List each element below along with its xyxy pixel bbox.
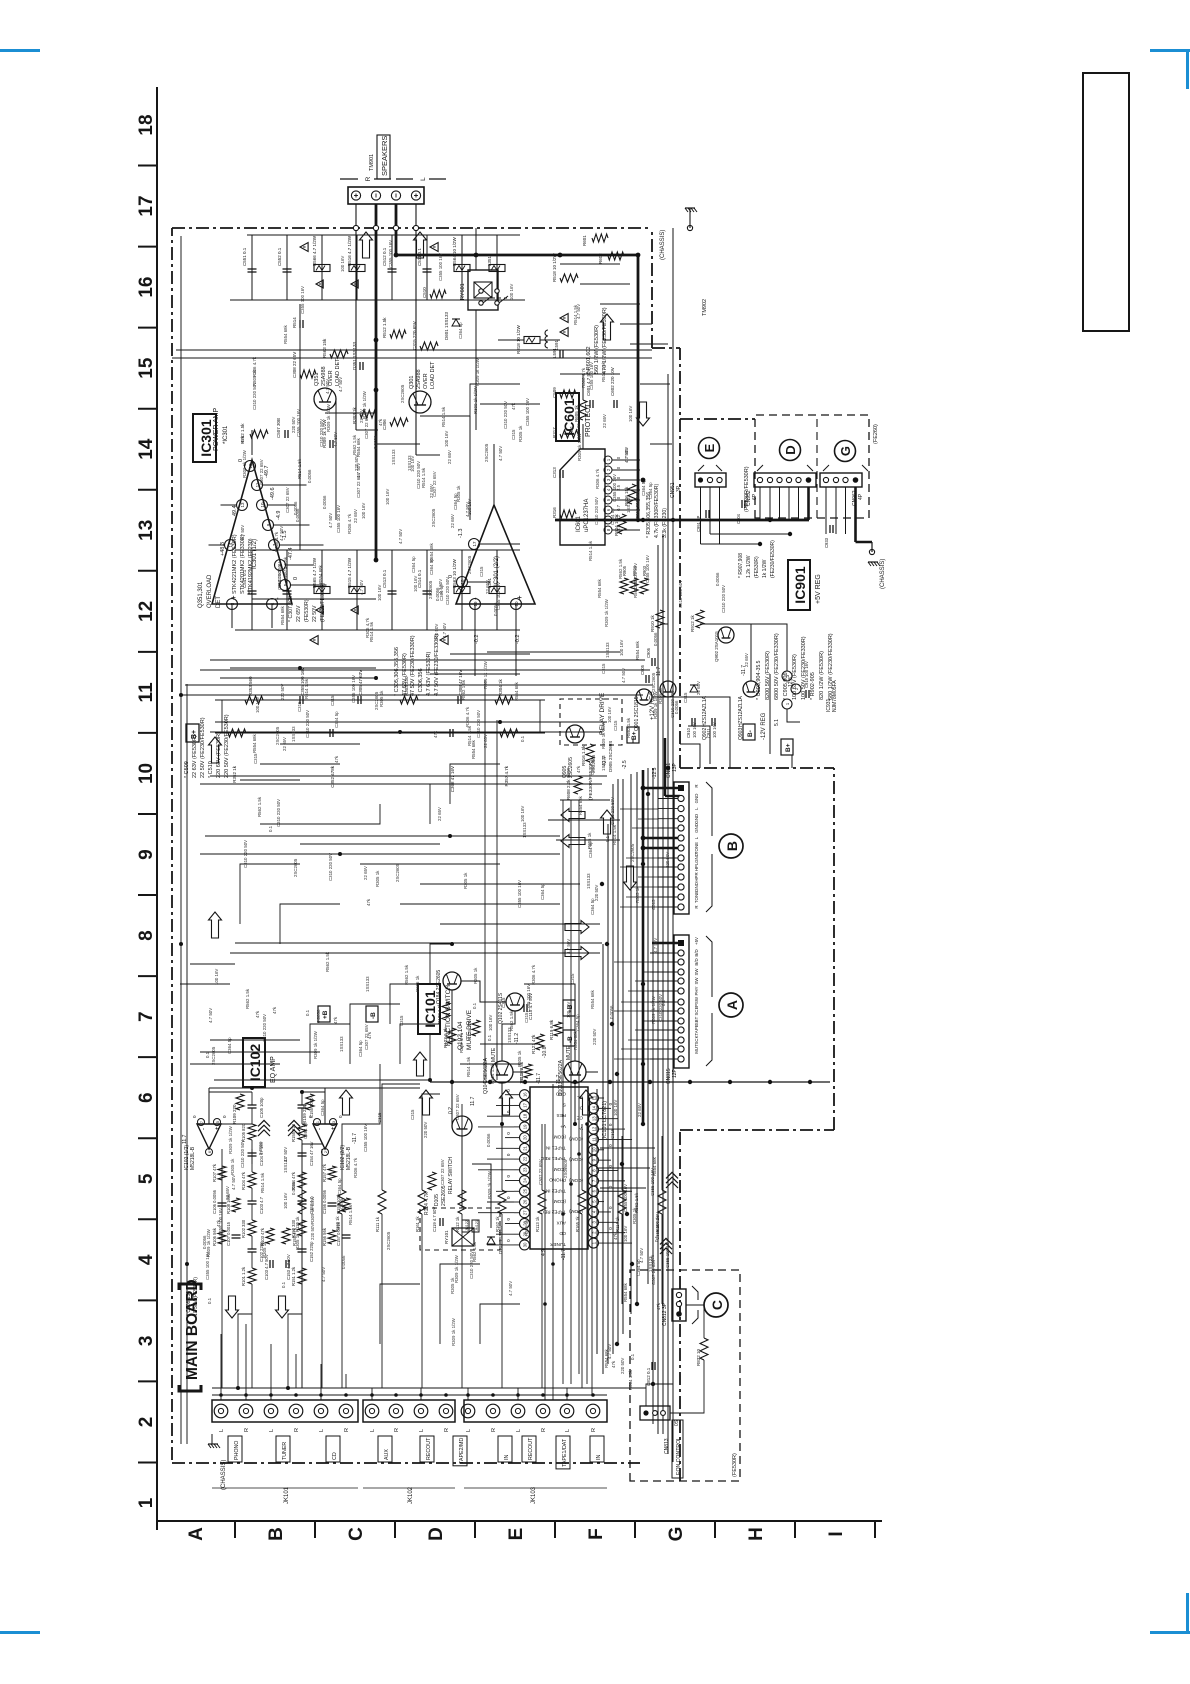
output filter rung R516 (356, 235, 358, 300)
CN815 pin 9 (678, 1018, 684, 1024)
CN811 pin 3 (678, 805, 684, 811)
svg-text:2SC2605: 2SC2605 (630, 843, 635, 862)
svg-text:C364 5p: C364 5p (320, 1099, 325, 1116)
wire (650, 443, 672, 445)
svg-text:4: 4 (136, 1254, 157, 1265)
power label -B box (366, 1006, 378, 1022)
svg-text:0.1: 0.1 (605, 835, 610, 842)
ruler tick (138, 246, 157, 248)
svg-text:100 16V: 100 16V (410, 456, 415, 472)
wire (541, 1124, 543, 1164)
svg-text:17: 17 (472, 541, 477, 547)
resistor R832 (700, 1338, 708, 1360)
bus wire y658 (657, 545, 659, 1434)
wire (200, 853, 560, 855)
svg-text:TUNER: TUNER (549, 1242, 566, 1247)
long link y485 (484, 680, 486, 1080)
wire (430, 673, 520, 675)
svg-text:4.7 50V: 4.7 50V (325, 379, 330, 394)
svg-text:0.1: 0.1 (630, 1353, 635, 1360)
connector CN962 4P (820, 473, 862, 487)
svg-text:R109 220: R109 220 (232, 1104, 237, 1124)
ruler tick (138, 813, 157, 815)
svg-text:6: 6 (208, 1151, 212, 1153)
signal arrow up 1 (561, 835, 585, 848)
svg-text:4.7 50V: 4.7 50V (498, 446, 503, 461)
svg-text:20: 20 (523, 1135, 528, 1140)
wire (382, 1084, 420, 1164)
ruler tick (138, 489, 157, 491)
svg-text:R305 1k: R305 1k (635, 886, 640, 903)
svg-text:R554 68k: R554 68k (623, 1282, 628, 1302)
svg-text:47 50V (FE230/FE330R): 47 50V (FE230/FE330R) (410, 635, 416, 696)
svg-text:C355 100 16V: C355 100 16V (525, 398, 530, 426)
connector CN812 3P (672, 1289, 686, 1321)
svg-text:2SC2605: 2SC2605 (467, 555, 472, 574)
resistor R125 (472, 1020, 480, 1036)
svg-text:R316: R316 (552, 507, 557, 518)
svg-text:6800 50V (FE230/FE330R): 6800 50V (FE230/FE330R) (774, 633, 780, 700)
svg-text:C315: C315 (601, 663, 606, 674)
transistor Q901 (636, 689, 652, 705)
svg-text:L: L (269, 1429, 275, 1432)
long rail x1014 (200, 669, 650, 671)
wire speaker L+ (415, 204, 417, 455)
bracket B (706, 854, 712, 912)
left ruler line (157, 1520, 882, 1522)
svg-text:2SE2605: 2SE2605 (441, 1185, 447, 1206)
svg-text:C315 220 65V: C315 220 65V (412, 321, 417, 350)
IC601 label box (556, 393, 579, 441)
IC101 top pin feeders (505, 1094, 514, 1096)
svg-text:820 1/2W (FE530R): 820 1/2W (FE530R) (819, 651, 825, 700)
svg-text:C364 5p: C364 5p (610, 508, 615, 525)
connector D ring (780, 440, 801, 461)
svg-text:2SC2605: 2SC2605 (428, 580, 433, 599)
svg-text:R608 2.2k 1/2W: R608 2.2k 1/2W (566, 767, 571, 800)
svg-text:6: 6 (136, 1092, 157, 1103)
svg-text:R306 4.7k: R306 4.7k (365, 617, 370, 638)
svg-text:0.0056: 0.0056 (293, 501, 298, 515)
svg-text:49.4: 49.4 (232, 505, 238, 516)
svg-text:R602: R602 (598, 253, 603, 264)
svg-text:C103 4.7: C103 4.7 (259, 1196, 264, 1214)
chain components rail B (228, 729, 246, 737)
svg-text:C355 100 16V: C355 100 16V (388, 240, 393, 268)
svg-text:SPEAKERS: SPEAKERS (380, 136, 389, 176)
svg-text:100 16V: 100 16V (607, 707, 612, 723)
svg-text:C310 220 50V: C310 220 50V (670, 690, 675, 718)
svg-text:A: A (724, 1000, 740, 1010)
svg-text:C315: C315 (651, 899, 656, 910)
svg-text:-: - (317, 1128, 323, 1130)
svg-text:0: 0 (616, 456, 621, 459)
ruler tick (138, 651, 157, 653)
svg-text:C355 100 16V: C355 100 16V (300, 286, 305, 314)
input label RECOUT (522, 1436, 536, 1462)
input label RECOUT (420, 1436, 434, 1462)
input jack L at y518 (511, 1404, 525, 1418)
IC101 pin 11 (589, 1134, 599, 1144)
svg-text:2SC2605: 2SC2605 (484, 443, 489, 462)
transistor Q301 overload det (409, 391, 431, 413)
filter ladder rail 3 (235, 629, 520, 631)
transistor Q904 (718, 627, 734, 643)
svg-text:R112 1k: R112 1k (455, 1216, 460, 1232)
svg-text:TAPE: TAPE (694, 1024, 699, 1035)
svg-text:22 65V: 22 65V (359, 409, 364, 423)
svg-text:22 65V: 22 65V (637, 1103, 642, 1117)
component C155 (298, 1107, 307, 1109)
svg-text:C308 22 65V: C308 22 65V (292, 352, 297, 378)
power supply label B+ (186, 724, 199, 742)
CN811 pin 7 (678, 845, 684, 851)
svg-text:0: 0 (506, 1196, 511, 1199)
diode D101 (487, 1237, 495, 1244)
svg-text:2SE5622A: 2SE5622A (483, 1057, 489, 1082)
svg-text:C310 220 50V: C310 220 50V (277, 562, 282, 590)
svg-text:C315: C315 (570, 973, 575, 984)
resistor R604 (618, 514, 626, 534)
wire (586, 1124, 588, 1384)
ruler tick (138, 327, 157, 329)
svg-text:0: 0 (506, 1239, 511, 1242)
filter rung R515 (356, 550, 358, 630)
IC101 pin 22 TAPE1 REC (520, 1154, 530, 1164)
svg-text:R309 1k 1/2W: R309 1k 1/2W (487, 1170, 492, 1199)
svg-text:220 50V: 220 50V (592, 1029, 597, 1045)
resistor R121 (536, 1034, 544, 1050)
top ruler line (156, 87, 158, 1530)
svg-text:0: 0 (608, 1165, 613, 1168)
IC101 pin 16 GND (520, 1090, 530, 1100)
svg-text:100 50V (FE230/FE330R): 100 50V (FE230/FE330R) (801, 636, 807, 700)
svg-text:R309 1k 1/2W: R309 1k 1/2W (473, 385, 478, 414)
svg-text:IN: IN (596, 1455, 602, 1460)
signal arrow bus right (601, 810, 614, 834)
svg-text:C364 5p: C364 5p (334, 711, 339, 728)
resistor R606 (628, 484, 636, 504)
CN815 pin 3 (678, 959, 684, 965)
ruler tick (138, 408, 157, 410)
component C152 (298, 1251, 307, 1253)
input jack L at y567 (560, 1404, 574, 1418)
input jack L at y421 (414, 1404, 428, 1418)
boxed resistor R318 (524, 337, 540, 344)
input jack R at y593 (586, 1404, 600, 1418)
svg-text:5: 5 (216, 1121, 220, 1123)
feed wires CN811 (658, 798, 678, 800)
IC101 pin 28 AUX (520, 1218, 530, 1228)
capacitor C103 (269, 1260, 271, 1268)
IC301 pin 5 (280, 580, 291, 591)
svg-text:0.0056: 0.0056 (653, 632, 658, 646)
wire (400, 1024, 440, 1064)
svg-text:GND: GND (694, 814, 699, 824)
main board border connector bay (680, 767, 834, 769)
svg-text:1SS133: 1SS133 (601, 755, 606, 771)
input label CD (326, 1436, 340, 1462)
svg-text:C310 220 50V: C310 220 50V (262, 1014, 267, 1042)
svg-text:(FE230/FE330R): (FE230/FE330R) (320, 583, 326, 622)
transistor Q101 mute (564, 1061, 586, 1083)
svg-text:1SS133: 1SS133 (391, 449, 396, 465)
resistor R112 (461, 1214, 463, 1388)
component R155 (298, 1124, 306, 1140)
svg-text:R: R (694, 784, 699, 787)
svg-text:C315: C315 (524, 1012, 529, 1023)
svg-text:R305 1k: R305 1k (262, 1241, 267, 1258)
svg-text:Q301: Q301 (409, 376, 415, 389)
svg-text:0: 0 (506, 1175, 511, 1178)
svg-text:L: L (420, 177, 427, 181)
relay contact R (495, 301, 499, 305)
svg-text:-11.7: -11.7 (352, 1133, 358, 1144)
CN815 pin 11 (678, 1037, 684, 1043)
IC101 pin 17 S (520, 1100, 530, 1110)
svg-text:R514 1.5k: R514 1.5k (421, 467, 426, 488)
capacitor C911 (711, 718, 713, 726)
IC901 label box (788, 560, 810, 610)
svg-text:C507 30B: C507 30B (276, 418, 281, 438)
svg-text:C315: C315 (253, 753, 258, 764)
svg-text:C307 22 65V: C307 22 65V (364, 1024, 369, 1050)
svg-text:R: R (344, 1428, 350, 1432)
svg-text:D: D (426, 1527, 447, 1541)
svg-text:C307 22 65V: C307 22 65V (432, 471, 437, 497)
bracket D (757, 465, 763, 471)
ruler tick (138, 165, 157, 167)
svg-text:100 16V: 100 16V (712, 722, 717, 738)
IC101 pin 25 TAPE2 IN (520, 1186, 530, 1196)
power label +B box (318, 1006, 330, 1022)
svg-text:SW: SW (694, 968, 699, 976)
second up arrow speakers (414, 232, 427, 258)
border stub to connector D/G box (680, 418, 755, 420)
svg-text:4.7 50V: 4.7 50V (621, 668, 626, 683)
svg-text:CE: CE (577, 1116, 583, 1121)
component C102 (248, 1251, 257, 1253)
svg-text:R119 6.8k: R119 6.8k (549, 1019, 554, 1040)
component R152 (298, 1220, 306, 1236)
svg-text:R512 1.5k: R512 1.5k (382, 317, 387, 338)
svg-text:100 16V: 100 16V (377, 585, 382, 601)
component R154 (298, 1172, 306, 1188)
wire (480, 403, 540, 405)
jack signal bus (212, 1387, 593, 1389)
svg-text:C310 220 50V: C310 220 50V (635, 491, 640, 519)
svg-text:C119 4.7 50V: C119 4.7 50V (432, 1206, 437, 1232)
mute wires (513, 1071, 524, 1073)
svg-text:220 50V: 220 50V (310, 1224, 315, 1240)
svg-text:11.7: 11.7 (470, 1096, 476, 1106)
mute bus dots (450, 1080, 454, 1084)
svg-text:(FE530R): (FE530R) (754, 556, 760, 578)
CN815 pin 12 (678, 1046, 684, 1052)
junction dots rails (179, 693, 183, 697)
wire (630, 343, 668, 345)
svg-text:JN122: JN122 (465, 1220, 469, 1231)
svg-text:R: R (541, 1428, 547, 1432)
filter ladder rail 4 (235, 549, 520, 551)
wire (180, 983, 230, 985)
svg-text:22 65V: 22 65V (225, 1186, 230, 1200)
svg-text:2SC2605: 2SC2605 (386, 1231, 391, 1250)
ruler tick (474, 1521, 476, 1538)
svg-text:22 65V: 22 65V (696, 681, 701, 695)
main board border bottom (679, 348, 681, 768)
svg-text:R306 4.7k: R306 4.7k (347, 513, 352, 534)
svg-text:100 16V: 100 16V (488, 1015, 493, 1031)
svg-text:R601: R601 (582, 235, 587, 246)
resistor R113 (541, 1214, 543, 1388)
svg-text:R554 68k: R554 68k (429, 542, 434, 562)
svg-text:1SS133: 1SS133 (507, 1027, 512, 1043)
wire (215, 721, 607, 723)
svg-text:17: 17 (523, 1102, 528, 1107)
svg-text:R352 1k: R352 1k (232, 765, 237, 783)
IC301 label box (193, 414, 216, 462)
svg-text:R562 1.5k: R562 1.5k (633, 577, 638, 598)
bus wire y618 (617, 779, 619, 1344)
svg-text:R514 1.5k: R514 1.5k (304, 678, 309, 699)
ruler tick (138, 1218, 157, 1220)
svg-text:C364 5p: C364 5p (588, 841, 593, 858)
svg-text:R912 1k: R912 1k (690, 614, 695, 632)
junction dots scatter (500, 1122, 504, 1126)
bus wire y603 (602, 944, 604, 1374)
svg-text:IC601: IC601 (576, 515, 582, 532)
svg-text:C364 5p: C364 5p (575, 1014, 580, 1031)
svg-text:4.7 50V: 4.7 50V (338, 377, 343, 392)
signal arrow eq (226, 1296, 239, 1318)
speaker terminal 1 (351, 191, 360, 200)
IC301 pin 10 (257, 500, 268, 511)
main board border top (171, 228, 173, 1460)
svg-text:R: R (591, 1428, 597, 1432)
svg-text:C310 220 50V: C310 220 50V (252, 382, 257, 410)
transistor Q102 (506, 993, 524, 1011)
IC101 pin 2 (589, 1228, 599, 1238)
jack feed wires (220, 1388, 222, 1400)
capacitor C904 (741, 500, 743, 508)
eq wires (221, 1149, 223, 1388)
component C103 (248, 1203, 257, 1205)
relay RY101 (452, 1228, 474, 1246)
transistor Q104 mute (491, 1061, 513, 1083)
svg-text:EQ AMP: EQ AMP (270, 1056, 277, 1083)
svg-text:OVER: OVER (423, 373, 429, 389)
svg-text:C355 100 16V: C355 100 16V (218, 1208, 223, 1236)
power label B+ box 2 (781, 739, 793, 755)
svg-text:2SC2605: 2SC2605 (211, 1046, 216, 1065)
svg-text:-49.6: -49.6 (270, 487, 276, 500)
svg-text:R562 1.5k: R562 1.5k (352, 434, 357, 455)
wire (356, 429, 378, 431)
svg-text:0: 0 (506, 1153, 511, 1156)
svg-text:L: L (419, 1429, 425, 1432)
svg-text:-2.5: -2.5 (622, 760, 628, 769)
svg-text:0: 0 (616, 466, 621, 469)
bold feed wire (664, 738, 666, 796)
svg-text:0.1: 0.1 (661, 999, 666, 1006)
svg-text:C310 220 50V: C310 220 50V (305, 710, 310, 738)
svg-text:C310 220 50V: C310 220 50V (469, 1251, 474, 1279)
crop mark top-left (0, 49, 40, 52)
svg-text:R305 1k: R305 1k (379, 690, 384, 707)
mute bus line (430, 1081, 830, 1083)
svg-text:CD: CD (559, 1231, 566, 1236)
svg-text:0.1: 0.1 (472, 1002, 477, 1009)
wire (240, 779, 300, 781)
svg-text:R: R (444, 1428, 450, 1432)
transistor Q351 overload det (314, 388, 336, 410)
svg-text:100 16V: 100 16V (340, 256, 345, 272)
resistor R912 (696, 610, 704, 628)
IC101 pin 24 PHONO (520, 1176, 530, 1186)
svg-text:C552 0.1: C552 0.1 (277, 247, 282, 266)
svg-text:11.7: 11.7 (656, 666, 662, 676)
capacitor C153 (285, 1260, 287, 1268)
input jack L at y468 (461, 1404, 475, 1418)
CN811 pin 12 (678, 894, 684, 900)
svg-text:G: G (666, 1527, 687, 1542)
svg-text:+5V: +5V (694, 937, 699, 945)
IC101 pin 18 RES (520, 1111, 530, 1121)
svg-text:L: L (319, 1429, 325, 1432)
svg-text:16: 16 (136, 277, 157, 298)
CN811 pin 13 (678, 904, 684, 910)
svg-text:R: R (491, 1428, 497, 1432)
svg-text:HZS12AZL1A: HZS12AZL1A (738, 695, 744, 727)
svg-text:C511 0.1: C511 0.1 (417, 248, 422, 266)
svg-text:1.2k 1/2W: 1.2k 1/2W (746, 555, 752, 578)
output filter rail 2 (247, 234, 520, 236)
IC601 pin 7 (604, 516, 612, 524)
resistor R103 47k (266, 1228, 274, 1244)
svg-text:8: 8 (606, 528, 611, 531)
resistor R119 (554, 1022, 562, 1036)
svg-text:0: 0 (506, 1110, 511, 1113)
main board border bottom left (679, 1130, 681, 1481)
component R104 (248, 1172, 256, 1188)
svg-text:220 50V: 220 50V (423, 1122, 428, 1138)
input jack L at y221 (214, 1404, 228, 1418)
jack board JK102 (363, 1400, 455, 1422)
connector CN952 6P (754, 473, 816, 487)
svg-text:+B: +B (322, 1010, 329, 1019)
ruler tick (138, 1299, 157, 1301)
wire (440, 1264, 480, 1344)
wire (310, 1024, 350, 1064)
svg-text:2: 2 (136, 1417, 157, 1428)
bracket E (698, 465, 704, 471)
resistor R118 (524, 1064, 532, 1078)
svg-text:3: 3 (606, 478, 611, 481)
svg-text:CD: CD (332, 1452, 338, 1460)
wire (350, 1004, 400, 1064)
svg-text:R305 1k: R305 1k (658, 687, 663, 704)
svg-text:13: 13 (240, 502, 245, 508)
input jack R at y346 (339, 1404, 353, 1418)
resistor R111 (381, 1214, 383, 1388)
svg-text:C310 220 50V: C310 220 50V (276, 799, 281, 827)
IC101 pin 1 (589, 1238, 599, 1248)
svg-text:0.0056: 0.0056 (316, 1009, 321, 1023)
svg-text:JK101: JK101 (284, 1486, 290, 1504)
svg-text:R306 4.7k: R306 4.7k (465, 706, 470, 727)
speaker R channel tag (340, 178, 358, 180)
